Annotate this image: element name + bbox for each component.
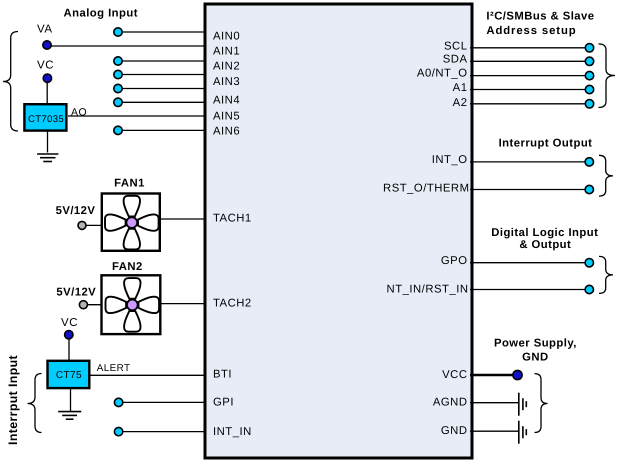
svg-text:VC: VC	[37, 60, 54, 72]
svg-text:FAN2: FAN2	[112, 261, 143, 273]
svg-text:GND: GND	[441, 425, 468, 437]
svg-text:ALERT: ALERT	[97, 363, 131, 374]
svg-text:Interrput Input: Interrput Input	[6, 355, 20, 445]
svg-text:AIN1: AIN1	[213, 46, 240, 58]
svg-text:A0/NT_O: A0/NT_O	[417, 68, 468, 80]
svg-text:GND: GND	[522, 351, 548, 363]
svg-text:AO: AO	[71, 106, 87, 118]
svg-text:AIN0: AIN0	[213, 31, 240, 43]
svg-text:Analog Input: Analog Input	[64, 7, 138, 19]
svg-text:A1: A1	[453, 82, 468, 94]
svg-text:TACH1: TACH1	[213, 213, 252, 225]
svg-text:VCC: VCC	[442, 369, 467, 381]
svg-text:INT_O: INT_O	[432, 154, 468, 166]
svg-text:Power Supply,: Power Supply,	[494, 337, 577, 349]
svg-text:AIN2: AIN2	[213, 61, 240, 73]
svg-text:I²C/SMBus & Slave: I²C/SMBus & Slave	[486, 11, 594, 23]
svg-text:TACH2: TACH2	[213, 298, 252, 310]
svg-text:VA: VA	[37, 24, 53, 36]
svg-text:SDA: SDA	[443, 53, 468, 65]
svg-text:& Output: & Output	[519, 239, 571, 251]
svg-text:NT_IN/RST_IN: NT_IN/RST_IN	[387, 284, 469, 296]
svg-text:5V/12V: 5V/12V	[56, 205, 96, 217]
svg-text:Address setup: Address setup	[486, 25, 576, 37]
svg-text:GPO: GPO	[441, 255, 468, 267]
svg-text:RST_O/THERM: RST_O/THERM	[383, 183, 469, 195]
svg-text:5V/12V: 5V/12V	[56, 287, 96, 299]
svg-text:AIN6: AIN6	[213, 126, 240, 138]
svg-text:Interrupt Output: Interrupt Output	[499, 138, 593, 150]
svg-text:Digital Logic Input: Digital Logic Input	[491, 227, 598, 239]
svg-text:CT75: CT75	[56, 370, 82, 381]
svg-text:INT_IN: INT_IN	[213, 426, 252, 438]
svg-text:GPI: GPI	[213, 397, 234, 409]
svg-text:FAN1: FAN1	[114, 178, 145, 190]
svg-text:AGND: AGND	[433, 397, 468, 409]
svg-text:AIN4: AIN4	[213, 95, 240, 107]
svg-text:AIN3: AIN3	[213, 76, 240, 88]
svg-text:A2: A2	[453, 97, 468, 109]
svg-text:CT7035: CT7035	[28, 114, 64, 125]
svg-text:AIN5: AIN5	[213, 111, 240, 123]
svg-text:VC: VC	[61, 317, 78, 329]
svg-text:BTI: BTI	[213, 369, 232, 381]
svg-text:SCL: SCL	[444, 41, 467, 53]
